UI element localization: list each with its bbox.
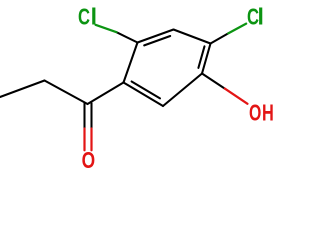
svg-text:O: O: [82, 147, 96, 173]
carbonyl C=O double bond red halves: [83, 129, 85, 151]
wire: carbonyl C to ring C1: [88, 83, 124, 105]
ring edge C6-C1: [124, 83, 164, 107]
svg-text:O: O: [249, 100, 261, 126]
bond C4-Cl2 green half: [228, 24, 246, 34]
bond C2-Cl1 black half: [117, 32, 138, 42]
svg-text:l: l: [91, 3, 97, 29]
chemical structure: 1-(2,4-dichloro-5-hydroxyphenyl)propan-1-one: [0, 0, 300, 176]
ring inner double line C6=C1: [132, 82, 160, 99]
bond C2-Cl1 green half: [96, 25, 117, 32]
ring edge C4-C5: [202, 44, 211, 74]
bond C5-OH black half: [202, 74, 225, 89]
svg-text:C: C: [78, 3, 90, 29]
bond C5-OH red half: [225, 89, 248, 104]
ring edge C5-C6: [163, 74, 202, 107]
wire: chain CH3 end segment: [0, 81, 45, 98]
svg-text:H: H: [262, 100, 274, 126]
wire: chain CH2 to carbonyl C: [45, 81, 88, 105]
ring inner double line C2=C3: [144, 36, 170, 45]
svg-text:l: l: [258, 3, 264, 29]
ring edge C1-C2: [124, 43, 138, 83]
carbonyl C=O double bond black halves: [83, 103, 85, 129]
bond C4-Cl2 black half: [211, 33, 229, 43]
ring edge C3-C4: [174, 30, 211, 44]
ring edge C2-C3: [138, 30, 174, 43]
ring inner double line C4=C5: [198, 46, 204, 68]
